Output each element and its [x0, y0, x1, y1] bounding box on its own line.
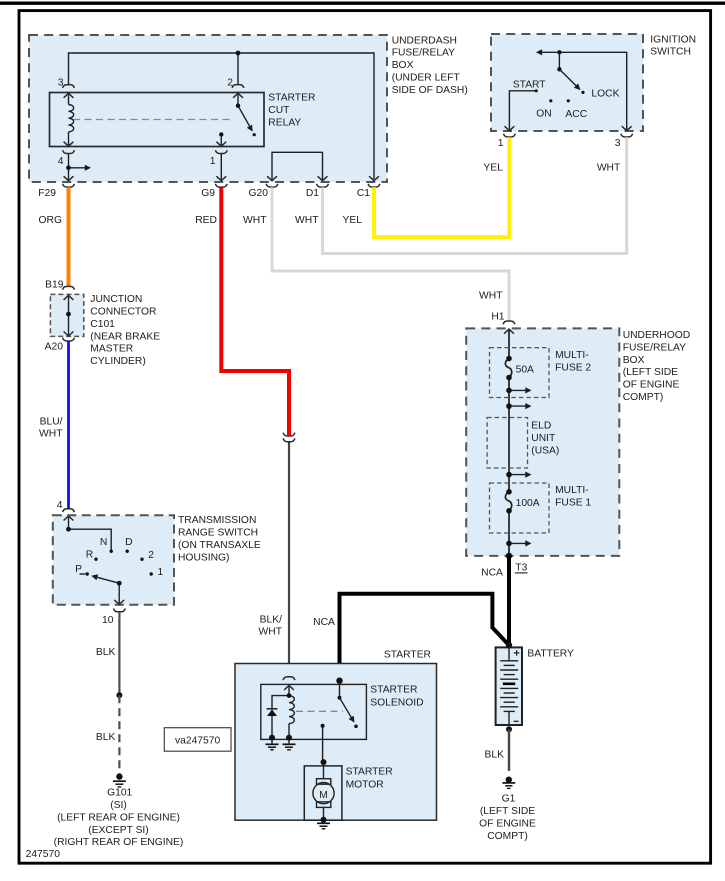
svg-text:BLK/: BLK/: [260, 614, 282, 625]
svg-text:STARTER: STARTER: [346, 767, 393, 778]
svg-text:N: N: [100, 537, 107, 548]
svg-text:H1: H1: [491, 311, 504, 322]
svg-text:RELAY: RELAY: [268, 118, 301, 129]
svg-text:10: 10: [102, 615, 114, 626]
svg-text:UNDERHOOD: UNDERHOOD: [623, 330, 691, 341]
svg-text:(ON TRANSAXLE: (ON TRANSAXLE: [178, 540, 261, 551]
svg-text:MASTER: MASTER: [90, 344, 133, 355]
svg-text:BOX: BOX: [623, 355, 645, 366]
svg-text:P: P: [75, 564, 82, 575]
svg-text:(SI): (SI): [110, 800, 127, 811]
svg-text:COMPT): COMPT): [623, 392, 664, 403]
svg-text:UNDERDASH: UNDERDASH: [392, 35, 457, 46]
svg-text:STARTER: STARTER: [370, 685, 417, 696]
svg-text:BLK: BLK: [485, 749, 505, 760]
svg-text:WHT: WHT: [243, 215, 267, 226]
svg-text:BLK: BLK: [96, 732, 116, 743]
svg-text:TRANSMISSION: TRANSMISSION: [178, 515, 256, 526]
svg-text:MULTI-: MULTI-: [555, 485, 589, 496]
svg-text:C1: C1: [357, 188, 370, 199]
svg-text:G20: G20: [249, 188, 269, 199]
svg-text:1: 1: [498, 138, 504, 149]
svg-text:(UNDER LEFT: (UNDER LEFT: [392, 73, 461, 84]
svg-text:BLK: BLK: [96, 647, 116, 658]
svg-text:YEL: YEL: [343, 215, 363, 226]
svg-text:LOCK: LOCK: [591, 88, 619, 99]
svg-text:HOUSING): HOUSING): [178, 552, 230, 563]
svg-text:B19: B19: [45, 279, 64, 290]
svg-text:WHT: WHT: [295, 215, 319, 226]
svg-text:WHT: WHT: [597, 163, 621, 174]
svg-text:FUSE 1: FUSE 1: [555, 498, 591, 509]
svg-text:SOLENOID: SOLENOID: [370, 698, 423, 709]
svg-text:4: 4: [58, 156, 64, 167]
svg-text:1: 1: [158, 567, 164, 578]
svg-text:COMPT): COMPT): [487, 831, 528, 842]
svg-text:G101: G101: [107, 788, 132, 799]
svg-text:ORG: ORG: [39, 215, 62, 226]
svg-text:FUSE 2: FUSE 2: [555, 363, 591, 374]
svg-text:(RIGHT REAR OF ENGINE): (RIGHT REAR OF ENGINE): [54, 837, 184, 848]
svg-text:CYLINDER): CYLINDER): [90, 356, 146, 367]
svg-text:MULTI-: MULTI-: [555, 350, 589, 361]
svg-text:CUT: CUT: [268, 105, 290, 116]
svg-text:FUSE/RELAY: FUSE/RELAY: [623, 342, 686, 353]
svg-text:100A: 100A: [516, 498, 540, 509]
svg-text:STARTER: STARTER: [268, 93, 315, 104]
svg-text:OF ENGINE: OF ENGINE: [623, 380, 680, 391]
svg-text:(LEFT SIDE: (LEFT SIDE: [480, 806, 535, 817]
svg-text:ELD: ELD: [531, 421, 551, 432]
svg-text:CONNECTOR: CONNECTOR: [90, 307, 156, 318]
svg-text:A20: A20: [45, 342, 64, 353]
svg-text:G9: G9: [201, 188, 215, 199]
svg-text:JUNCTION: JUNCTION: [90, 294, 142, 305]
svg-text:IGNITION: IGNITION: [650, 34, 696, 45]
svg-text:4: 4: [57, 500, 63, 511]
svg-text:WHT: WHT: [479, 291, 503, 302]
svg-text:3: 3: [615, 138, 621, 149]
svg-text:ON: ON: [536, 108, 551, 119]
svg-text:1: 1: [210, 156, 216, 167]
svg-text:BLU/: BLU/: [40, 416, 63, 427]
svg-text:START: START: [513, 79, 547, 90]
svg-text:D1: D1: [306, 188, 319, 199]
svg-text:247570: 247570: [26, 849, 61, 860]
svg-text:MOTOR: MOTOR: [346, 779, 384, 790]
svg-text:(USA): (USA): [531, 445, 559, 456]
svg-text:BATTERY: BATTERY: [527, 649, 574, 660]
svg-text:SWITCH: SWITCH: [650, 47, 691, 58]
svg-text:SIDE OF DASH): SIDE OF DASH): [392, 85, 468, 96]
svg-text:(LEFT SIDE: (LEFT SIDE: [623, 367, 678, 378]
svg-text:NCA: NCA: [313, 617, 335, 628]
svg-text:D: D: [125, 537, 132, 548]
svg-text:WHT: WHT: [39, 429, 63, 440]
svg-text:ACC: ACC: [565, 109, 587, 120]
svg-text:(EXCEPT SI): (EXCEPT SI): [88, 825, 148, 836]
svg-text:F29: F29: [38, 188, 56, 199]
svg-text:RED: RED: [195, 215, 217, 226]
svg-text:R: R: [86, 550, 93, 561]
svg-text:STARTER: STARTER: [384, 649, 431, 660]
svg-text:NCA: NCA: [481, 567, 503, 578]
svg-text:M: M: [319, 790, 328, 801]
svg-text:va247570: va247570: [175, 736, 221, 747]
svg-text:C101: C101: [90, 319, 115, 330]
svg-text:T3: T3: [515, 563, 527, 574]
svg-text:BOX: BOX: [392, 60, 414, 71]
svg-text:OF ENGINE: OF ENGINE: [479, 818, 536, 829]
svg-text:50A: 50A: [516, 364, 534, 375]
svg-text:(NEAR BRAKE: (NEAR BRAKE: [90, 331, 160, 342]
svg-text:YEL: YEL: [483, 163, 503, 174]
svg-text:(LEFT REAR OF ENGINE): (LEFT REAR OF ENGINE): [57, 812, 180, 823]
svg-text:WHT: WHT: [259, 627, 283, 638]
svg-text:FUSE/RELAY: FUSE/RELAY: [392, 48, 455, 59]
svg-text:G1: G1: [502, 793, 516, 804]
svg-text:UNIT: UNIT: [531, 433, 556, 444]
svg-text:RANGE SWITCH: RANGE SWITCH: [178, 528, 258, 539]
svg-text:2: 2: [148, 550, 154, 561]
